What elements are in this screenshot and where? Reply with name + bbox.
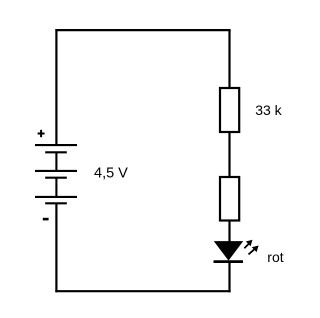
wire right vertical (top to R1) [228,29,230,88]
svg-text:rot: rot [267,249,283,265]
wire top horizontal [55,29,230,31]
battery cell 2 short plate [45,177,67,179]
svg-text:33 k: 33 k [255,102,282,118]
LED light arrow 1 [244,240,252,249]
battery cell 2 long plate [35,170,77,172]
wire R1 to R2 [228,132,230,177]
LED D1 anode triangle [215,242,242,260]
resistor R1 33 k [220,88,239,132]
LED light arrow 2 [249,246,259,255]
wire R2 to LED [228,221,230,244]
wire left vertical upper (top to battery +) [55,29,57,146]
resistor R2 [220,177,239,221]
battery cell 3 long plate [35,196,77,198]
wire between cell 2 and cell 3 [55,178,57,197]
battery B1 4,5 V [35,145,77,203]
battery cell 3 short plate [45,202,67,204]
battery plus polarity mark [38,130,45,137]
svg-text:4,5 V: 4,5 V [94,166,128,182]
wire LED to bottom [228,262,230,292]
battery minus polarity mark [43,218,49,221]
wire bottom horizontal [55,290,230,292]
LED D1 cathode bar [214,260,244,263]
wire left vertical lower (battery - to bottom) [55,203,57,292]
wire between cell 1 and cell 2 [55,152,57,171]
battery cell 1 short plate [45,151,67,153]
battery cell 1 long plate [35,144,77,146]
